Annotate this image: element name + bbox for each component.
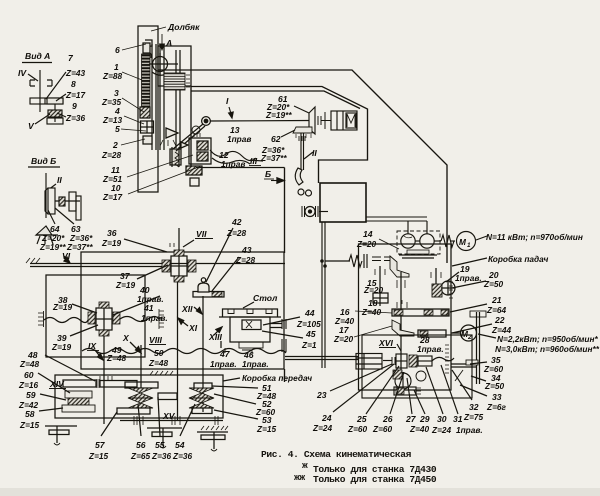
svg-text:Z=15: Z=15 (256, 424, 277, 434)
svg-text:Z=43: Z=43 (65, 68, 86, 78)
view A title underline (22, 62, 52, 64)
svg-text:XII: XII (181, 304, 193, 314)
gear bar 7 (30, 98, 63, 104)
Б vertical to box (284, 168, 286, 254)
shaft II vertical (300, 133, 302, 170)
ram bar strips (151, 44, 153, 150)
svg-text:Z=15: Z=15 (88, 451, 109, 461)
bell gear 42 (198, 283, 209, 292)
VII label underline + leader (195, 238, 213, 240)
spring small below (175, 152, 179, 167)
svg-text:Z=24: Z=24 (431, 425, 452, 435)
small ring lower (192, 126, 200, 134)
leaders 40 41 (113, 296, 160, 315)
svg-text:VI: VI (62, 251, 71, 261)
leaders 44 45 (263, 317, 300, 325)
left inner vertical (190, 86, 192, 167)
hook lever on II (295, 168, 303, 185)
svg-text:23: 23 (316, 390, 327, 400)
leaders 51 52 53 (212, 386, 258, 388)
rod (383, 360, 392, 362)
mechanism box 11/10 (189, 138, 211, 164)
gear w cross (141, 121, 154, 133)
svg-text:XI: XI (188, 323, 198, 333)
vertical shaft 15 (379, 266, 381, 306)
gear 9 (48, 110, 62, 117)
leader 7 (46, 72, 66, 99)
shaft X vertical (140, 345, 142, 390)
left stack 59/58 (65, 391, 92, 398)
cylinder (356, 354, 382, 370)
leader to label (452, 258, 487, 266)
svg-text:22: 22 (494, 315, 505, 325)
svg-text:Z=1: Z=1 (301, 340, 317, 350)
Б arrow (271, 180, 279, 182)
brackets 46 47 (242, 350, 252, 354)
gear bar row 18 (392, 309, 449, 316)
XV shaft line (120, 420, 223, 422)
section Б line (196, 167, 285, 169)
svg-text:Z=50: Z=50 (483, 279, 504, 289)
svg-text:Z=105: Z=105 (296, 319, 321, 329)
spring row horizontal (325, 260, 350, 262)
guide block horizontal hatch (164, 73, 185, 90)
svg-text:Z=36: Z=36 (151, 451, 172, 461)
gear circle in box (441, 281, 455, 295)
svg-text:1прав.: 1прав. (141, 313, 168, 323)
svg-text:Z=75: Z=75 (463, 412, 484, 422)
svg-text:47: 47 (219, 349, 231, 359)
leader to label (223, 378, 240, 381)
pump circle 1 (401, 234, 415, 248)
svg-text:IX: IX (88, 341, 97, 351)
svg-text:Z=20: Z=20 (363, 285, 384, 295)
svg-text:32: 32 (469, 402, 479, 412)
svg-text:IV: IV (18, 68, 27, 78)
svg-text:Коробка падач: Коробка падач (488, 254, 548, 264)
nut box with cross (242, 320, 261, 330)
bevel circle below (395, 373, 411, 389)
svg-text:Z=36: Z=36 (65, 113, 86, 123)
svg-text:Z=19: Z=19 (115, 280, 136, 290)
svg-text:58: 58 (25, 409, 35, 419)
leaders 42 43 (206, 228, 233, 282)
leaders 57 56 55 54 (101, 412, 117, 436)
svg-text:1: 1 (467, 242, 471, 249)
gear on vertical shaft (396, 354, 407, 368)
vertical shaft 18 (400, 272, 402, 378)
svg-text:Z=48: Z=48 (19, 359, 40, 369)
leader V (35, 114, 50, 124)
svg-text:Z=6г: Z=6г (486, 402, 507, 412)
svg-text:XIII: XIII (208, 332, 223, 342)
leaders for 19-22 (446, 272, 459, 282)
couplings on XIV (97, 379, 99, 388)
svg-text:9: 9 (72, 101, 77, 111)
small block (143, 136, 152, 144)
svg-text:Z=37**: Z=37** (260, 153, 287, 163)
shaft XII vertical (202, 296, 204, 412)
gear 15 cross (373, 293, 388, 303)
svg-text:1прав.: 1прав. (210, 359, 237, 369)
gear bottom with band (186, 166, 202, 175)
stack 2 (x=201) (194, 383, 212, 389)
svg-text:Z=28: Z=28 (235, 255, 256, 265)
feed box outline (359, 244, 452, 390)
leader IX (95, 350, 102, 359)
shaft IV vertical (39, 70, 41, 112)
right side vertical bar 35/34 (476, 312, 478, 384)
svg-text:Z=48: Z=48 (106, 353, 127, 363)
pulley disc bottom (170, 149, 181, 165)
disc right (69, 192, 76, 211)
shaft IX vertical (103, 336, 105, 424)
pinion circle (153, 57, 168, 72)
svg-text:60: 60 (24, 370, 34, 380)
pump shaft (415, 240, 420, 242)
svg-text:56: 56 (136, 440, 146, 450)
svg-text:1прав: 1прав (227, 134, 251, 144)
wavy VIII long (82, 349, 286, 354)
svg-text:Только для станка 7Д450: Только для станка 7Д450 (313, 474, 437, 485)
wavy to right wall (432, 357, 454, 361)
gear 8 small (47, 98, 63, 104)
svg-text:Z=24: Z=24 (312, 423, 333, 433)
dashes (372, 257, 381, 261)
svg-text:6: 6 (115, 45, 120, 55)
spring zigzag (349, 255, 362, 267)
svg-text:XIV: XIV (49, 379, 65, 389)
svg-text:1прав.: 1прав. (417, 344, 444, 354)
valve assembly (305, 207, 315, 217)
leader IV (28, 74, 38, 81)
left end hatches (26, 258, 40, 263)
svg-text:26: 26 (382, 414, 393, 424)
leaders 64 63 (48, 210, 55, 224)
screw stub (270, 323, 282, 325)
gear stacks below (393, 370, 402, 379)
XIV shaft bars (63, 380, 96, 387)
clutch cone on shaft I (309, 107, 315, 134)
svg-text:А: А (165, 38, 172, 48)
T-slot table profile (223, 309, 278, 317)
shaft VI double line (30, 263, 285, 265)
svg-text:59: 59 (26, 390, 36, 400)
gear rack dark strip (142, 54, 151, 108)
VI arrow (64, 256, 69, 262)
bearing bars (282, 319, 286, 329)
svg-text:25: 25 (356, 414, 367, 424)
leaders from left labels (121, 44, 196, 194)
leaders 38 39 (72, 304, 97, 313)
svg-text:62: 62 (271, 134, 281, 144)
svg-text:55: 55 (155, 440, 165, 450)
svg-text:Z=15: Z=15 (19, 420, 40, 430)
svg-text:N=11 кВт; n=970об/мин: N=11 кВт; n=970об/мин (486, 232, 583, 242)
svg-text:Вид Б: Вид Б (31, 156, 56, 166)
svg-text:1прав.: 1прав. (456, 425, 483, 435)
svg-text:Z=60: Z=60 (347, 424, 368, 434)
shaft XI vertical (177, 282, 179, 420)
svg-text:43: 43 (241, 245, 252, 255)
bracket left (30, 80, 35, 86)
leaders 61 (294, 106, 309, 113)
comb anchor left (38, 313, 43, 325)
svg-text:41: 41 (143, 303, 154, 313)
solid box (320, 183, 366, 222)
svg-text:5: 5 (115, 124, 120, 134)
bevel small left of box (181, 142, 188, 148)
base step (239, 342, 263, 348)
svg-text:57: 57 (95, 440, 106, 450)
svg-text:Z=60: Z=60 (372, 424, 393, 434)
top box right of column (158, 46, 191, 86)
svg-text:33: 33 (492, 392, 502, 402)
motor M2 (461, 325, 477, 341)
I arrow (229, 107, 232, 117)
svg-text:50: 50 (154, 348, 164, 358)
leaders for 35-33 (470, 362, 487, 364)
svg-text:Z=65: Z=65 (130, 451, 151, 461)
mid bar between stacks (158, 393, 177, 400)
svg-text:24: 24 (321, 413, 332, 423)
svg-text:Z=19: Z=19 (51, 342, 72, 352)
double drop line below box (321, 222, 323, 368)
svg-text:Z=48: Z=48 (148, 358, 169, 368)
bracket angle piece (390, 256, 409, 277)
coupling small (59, 197, 65, 206)
svg-text:Z=16: Z=16 (18, 380, 39, 390)
motor M1 (457, 232, 476, 251)
svg-text:II: II (312, 148, 317, 158)
column outer housing (138, 26, 158, 192)
leader 36 (124, 239, 167, 252)
svg-text:М: М (459, 237, 467, 247)
svg-text:XVI: XVI (378, 338, 393, 348)
bracket 17 (392, 320, 414, 336)
leader II (304, 152, 313, 159)
worm under rack (140, 107, 150, 118)
svg-text:II: II (57, 175, 62, 185)
svg-text:N=3,0кВт; n=960об/мин**: N=3,0кВт; n=960об/мин** (495, 344, 600, 354)
svg-text:Коробка передач: Коробка передач (242, 373, 312, 383)
svg-text:30: 30 (437, 414, 447, 424)
gear cluster VII (171, 256, 187, 276)
svg-text:Долбяк: Долбяк (167, 22, 200, 32)
outer top wall (158, 70, 447, 263)
hanger 1 (45, 425, 77, 427)
leaders 62 (281, 130, 295, 137)
piston box (331, 111, 357, 130)
svg-text:45: 45 (305, 329, 316, 339)
link to pulley (173, 124, 203, 149)
svg-text:29: 29 (419, 414, 430, 424)
XVI shaft from left (285, 356, 358, 358)
svg-text:Рис. 4. Схема кинематическая: Рис. 4. Схема кинематическая (261, 449, 412, 460)
svg-text:VII: VII (196, 229, 207, 239)
svg-text:Z=36: Z=36 (172, 451, 193, 461)
svg-text:27: 27 (405, 414, 417, 424)
leaders 15-18 (354, 311, 392, 337)
svg-text:54: 54 (175, 440, 185, 450)
comb marks right wall (449, 282, 453, 298)
leader 8 (56, 94, 66, 101)
leader 37 (137, 265, 168, 279)
XIII pipe (220, 341, 222, 348)
inner top wall (191, 87, 368, 184)
bracket triangle (166, 128, 178, 138)
gear cluster 38/39 (96, 308, 112, 330)
platform under pumps (399, 254, 437, 256)
hanger 2 (147, 427, 182, 429)
leaders X XI XII XIII VIII (130, 342, 140, 352)
svg-text:жж: жж (294, 472, 305, 483)
svg-text:Z=19: Z=19 (52, 302, 73, 312)
coupling bars (363, 254, 365, 268)
leader 14 (379, 239, 399, 249)
comb marks above box (150, 371, 173, 375)
svg-text:Z=28: Z=28 (101, 150, 122, 160)
shaft II coupling ticks (299, 136, 305, 141)
ring on shaft I left (202, 117, 211, 126)
spring coupling to M1 (441, 235, 454, 247)
bracket right (47, 80, 52, 86)
svg-text:Z=64: Z=64 (486, 305, 507, 315)
gear bar 43 (193, 292, 224, 298)
svg-text:31: 31 (453, 414, 463, 424)
svg-text:1прав.: 1прав. (242, 359, 269, 369)
coupling bars (392, 357, 395, 365)
svg-text:14: 14 (363, 229, 373, 239)
svg-text:XV: XV (162, 411, 176, 421)
svg-text:Z=88: Z=88 (102, 71, 123, 81)
svg-text:N=2,2кВт; n=950об/мин*: N=2,2кВт; n=950об/мин* (497, 334, 598, 344)
table body box (230, 317, 270, 342)
A arrow (161, 34, 163, 50)
svg-text:ж: ж (302, 460, 308, 471)
feed pipe over pumps (366, 216, 427, 218)
leader 9 (57, 113, 66, 117)
leader N= (476, 236, 487, 240)
svg-text:Z=17: Z=17 (102, 192, 123, 202)
shaft II vertical (45, 173, 47, 218)
svg-text:8: 8 (71, 79, 76, 89)
gear bar 62 (293, 127, 312, 133)
svg-text:Z=20: Z=20 (333, 334, 354, 344)
XVI label underline + leader (379, 347, 396, 349)
leaders to bottom labels (330, 364, 392, 391)
svg-text:Z=19**: Z=19** (265, 110, 292, 120)
leader стол (243, 302, 254, 308)
shaft I line (210, 120, 309, 123)
hanger 3 with comb (201, 426, 228, 430)
stub shaft above (435, 268, 437, 284)
svg-text:44: 44 (304, 308, 315, 318)
gearbox outline (55, 375, 223, 418)
svg-text:Вид А: Вид А (25, 51, 50, 61)
leaders 48/60/59/58 (45, 355, 95, 381)
svg-text:2: 2 (112, 140, 118, 150)
shaft horizontal (55, 200, 80, 202)
svg-text:Z=19: Z=19 (101, 238, 122, 248)
bevel disc large (48, 188, 55, 214)
top guide hook (145, 40, 152, 58)
wavy linkage 12 (210, 150, 263, 164)
svg-text:1прав.: 1прав. (455, 273, 482, 283)
big spindle box (81, 252, 284, 369)
svg-text:Z=40: Z=40 (409, 424, 430, 434)
svg-text:Z=28: Z=28 (226, 228, 247, 238)
svg-text:36: 36 (107, 228, 117, 238)
fan bevel bottom left (36, 226, 52, 235)
stack 1 (x=140) (125, 382, 158, 388)
svg-text:VIII: VIII (149, 335, 163, 345)
svg-text:21: 21 (491, 295, 502, 305)
wavy shaft line left (44, 318, 88, 323)
svg-text:Z=17: Z=17 (65, 90, 86, 100)
VII shaft vertical (178, 228, 180, 254)
svg-text:Б: Б (265, 169, 271, 179)
leader II (48, 184, 56, 190)
coupling bars (318, 116, 321, 125)
pump circle 2 (420, 234, 434, 248)
svg-text:Z=50: Z=50 (484, 381, 505, 391)
view B title underline (28, 166, 60, 168)
svg-text:Стол: Стол (253, 293, 278, 303)
comb anchor right (159, 311, 164, 327)
couplings right (409, 355, 417, 367)
inner box around 38/39 (46, 275, 145, 357)
apron box (362, 335, 472, 398)
svg-text:42: 42 (231, 217, 242, 227)
gear bar 28 (418, 330, 446, 337)
shaft V stub (54, 104, 56, 122)
dashed pump box (397, 231, 440, 254)
